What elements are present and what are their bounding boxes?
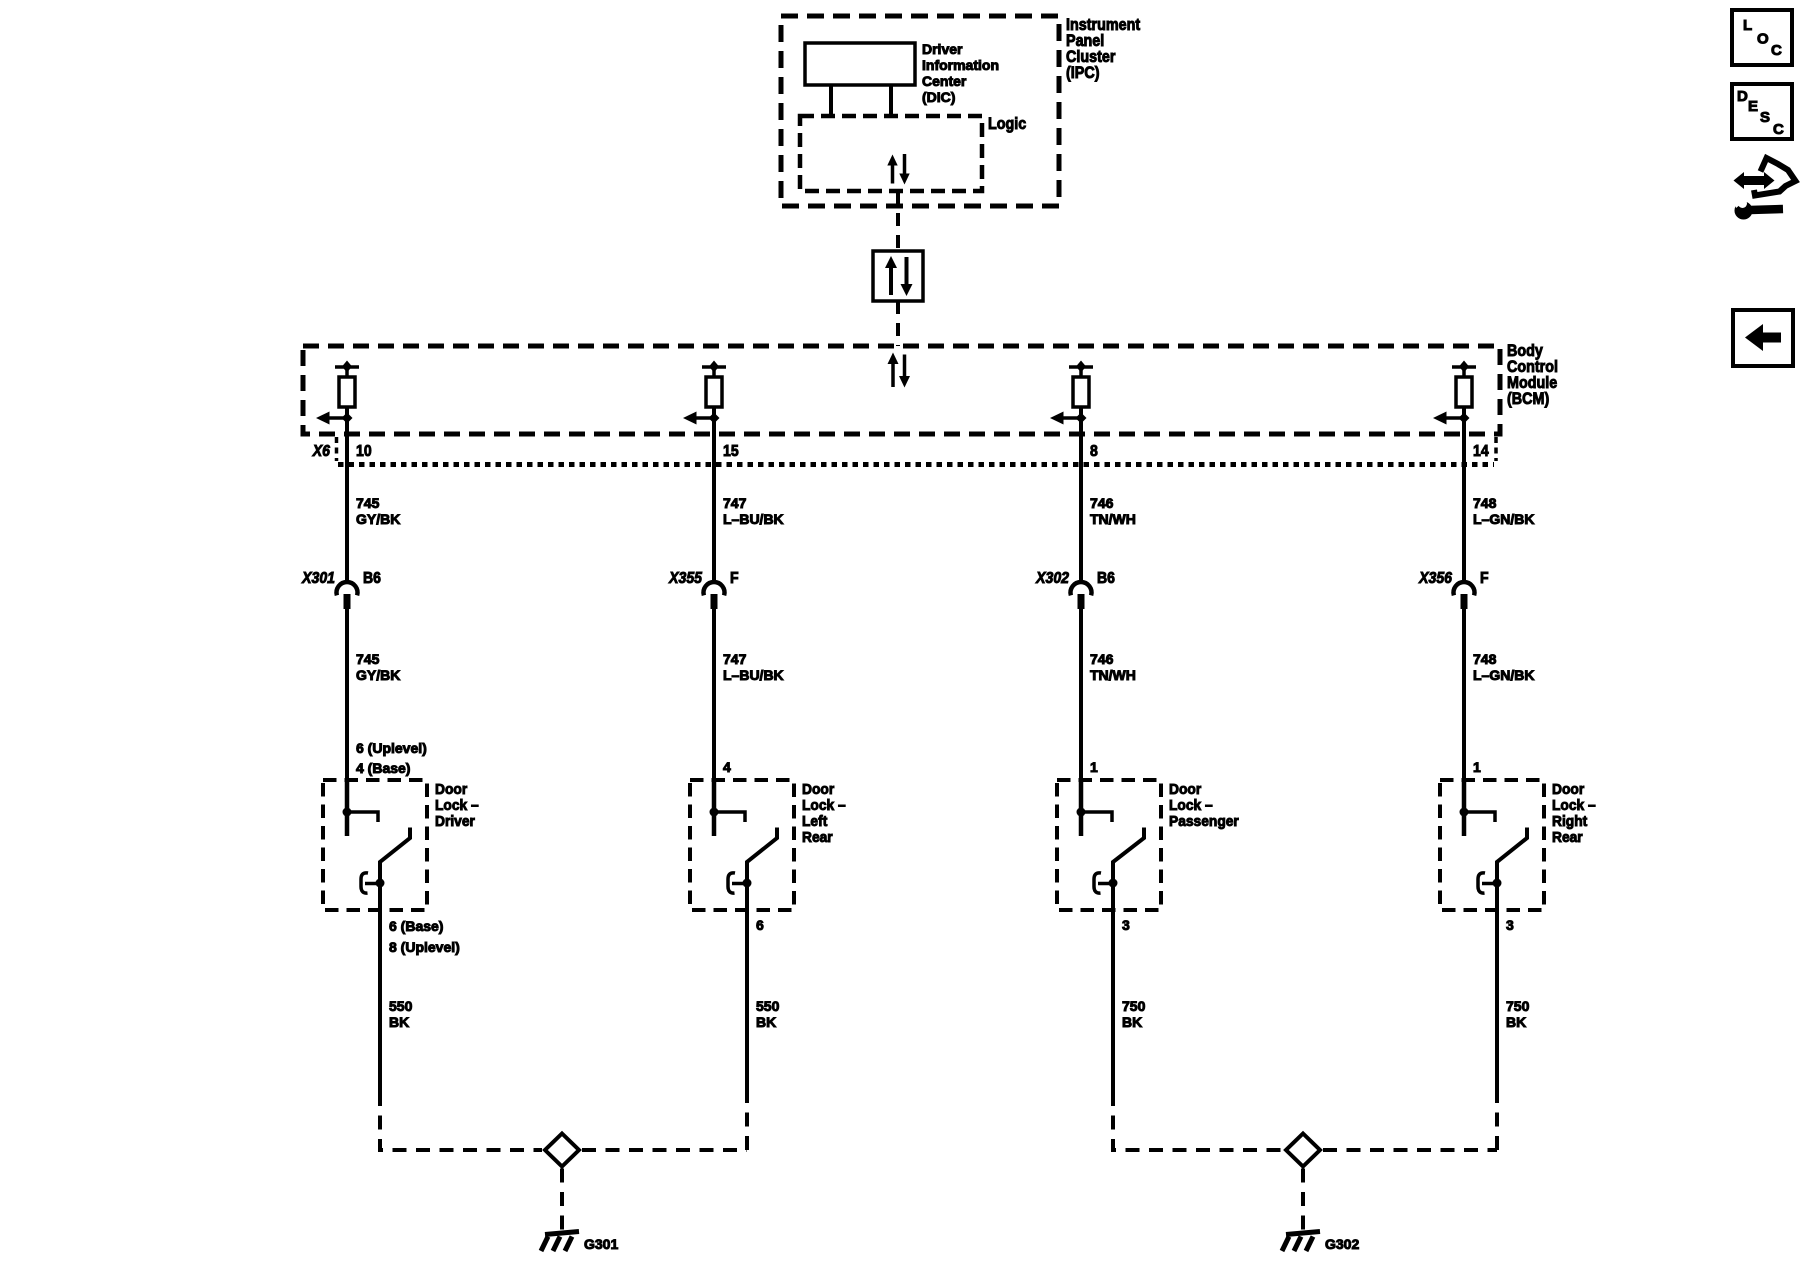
label switch pin 4 <box>723 759 731 775</box>
resistor R4 (BCM internal driver) <box>1456 377 1472 407</box>
junction dot (output 3) <box>1076 413 1087 424</box>
module box: Instrument Panel Cluster (IPC) <box>781 16 1059 206</box>
svg-text:L–GN/BK: L–GN/BK <box>1473 511 1534 527</box>
junction dot (switch output) <box>376 879 385 888</box>
wire 745 GY/BK (BCM pin 10 to connector X301) <box>345 436 349 584</box>
svg-text:745: 745 <box>356 495 380 511</box>
label connector pin F <box>1480 569 1489 587</box>
svg-text:GY/BK: GY/BK <box>356 511 400 527</box>
svg-text:C: C <box>1771 42 1782 59</box>
resistor R1 (BCM internal driver) <box>339 377 355 407</box>
wire resistor R4 to BCM pin 14 <box>1462 407 1466 436</box>
ground G301 <box>541 1232 579 1252</box>
signal sense arrow (output 1) <box>316 412 347 425</box>
resistor R2 (BCM internal driver) <box>706 377 722 407</box>
svg-text:Center: Center <box>922 73 967 89</box>
momentary contact hook <box>1094 873 1113 893</box>
signal sense arrow (output 3) <box>1050 412 1081 425</box>
label Door Lock - Left Rear <box>802 782 846 847</box>
fixed contact (unlock) <box>1081 812 1112 822</box>
wire 746 TN/WH (connector X302 to door lock switch) <box>1079 608 1083 781</box>
wire 747 L–BU/BK (BCM pin 15 to connector X355) <box>712 436 716 584</box>
svg-text:BK: BK <box>1122 1014 1142 1030</box>
switch input wire <box>1462 781 1467 836</box>
wire DIC to Logic (right lead) <box>889 85 893 116</box>
wire (dashed) driver switch to splice <box>380 1092 542 1150</box>
svg-text:3: 3 <box>1122 917 1130 933</box>
label BCM pin 15 <box>723 442 739 460</box>
junction dot (output 1) <box>342 413 353 424</box>
svg-text:G301: G301 <box>584 1236 618 1252</box>
switch blade (movable contact) <box>1497 828 1527 911</box>
junction dot (switch input) <box>710 808 719 817</box>
svg-text:Right: Right <box>1552 814 1587 831</box>
svg-text:Driver: Driver <box>922 41 963 57</box>
wire resistor R2 to BCM pin 15 <box>712 407 716 436</box>
label connector X302 <box>1035 569 1069 587</box>
svg-text:D: D <box>1737 88 1748 105</box>
svg-text:Lock –: Lock – <box>802 798 846 815</box>
fixed contact (unlock) <box>1464 812 1495 822</box>
switch blade (movable contact) <box>747 828 777 911</box>
svg-text:1: 1 <box>1473 759 1481 775</box>
junction dot (switch input) <box>343 808 352 817</box>
svg-text:Passenger: Passenger <box>1169 814 1239 831</box>
label connector pin B6 <box>1097 569 1115 587</box>
inline connector X355 pin F (female/male symbol) <box>704 582 725 609</box>
svg-text:746: 746 <box>1090 651 1114 667</box>
svg-text:Logic: Logic <box>988 115 1027 133</box>
label connector pin F <box>730 569 739 587</box>
label switch pin 3 <box>1506 917 1514 933</box>
icon button LOC <box>1732 10 1792 65</box>
svg-text:O: O <box>1757 31 1769 48</box>
wire: serial data IPC to link symbol (dashed) <box>896 191 900 251</box>
svg-text:(DIC): (DIC) <box>922 89 955 105</box>
svg-text:C: C <box>1773 121 1784 138</box>
svg-text:TN/WH: TN/WH <box>1090 667 1136 683</box>
label Door Lock - Passenger <box>1169 782 1239 831</box>
svg-text:8 (Uplevel): 8 (Uplevel) <box>389 939 460 955</box>
switch box: Door Lock - Right Rear <box>1440 780 1544 910</box>
svg-text:L: L <box>1743 17 1752 34</box>
svg-text:746: 746 <box>1090 495 1114 511</box>
label switch pin 1 <box>1090 759 1098 775</box>
BCM driver voltage rail (output 1) <box>335 361 359 378</box>
svg-text:GY/BK: GY/BK <box>356 667 400 683</box>
svg-text:Information: Information <box>922 57 999 73</box>
icon back arrow button <box>1733 310 1793 366</box>
logic box (IPC internal) <box>800 116 982 191</box>
junction dot (output 2) <box>709 413 720 424</box>
svg-text:Left: Left <box>802 814 827 831</box>
svg-text:Door: Door <box>1169 782 1202 799</box>
svg-text:15: 15 <box>723 442 739 460</box>
wire 550 BK (switch to splice) <box>378 910 382 1092</box>
svg-text:6 (Base): 6 (Base) <box>389 918 443 934</box>
BCM harness connector face (dotted line) <box>338 462 1494 467</box>
svg-text:X355: X355 <box>668 569 702 587</box>
svg-text:Rear: Rear <box>802 830 833 847</box>
wire (dashed) splice to G302 <box>1301 1169 1305 1234</box>
label connector pin B6 <box>363 569 381 587</box>
svg-text:747: 747 <box>723 651 747 667</box>
label DIC <box>922 41 999 105</box>
junction dot (output 4) <box>1459 413 1470 424</box>
label connector X6 <box>312 442 331 460</box>
svg-text:6 (Uplevel): 6 (Uplevel) <box>356 740 427 756</box>
junction dot (switch input) <box>1460 808 1469 817</box>
label wire 748 L–GN/BK (upper) <box>1473 495 1534 527</box>
label switch pin 3 <box>1122 917 1130 933</box>
switch blade (movable contact) <box>380 828 410 911</box>
svg-text:550: 550 <box>389 998 413 1014</box>
label wire 746 TN/WH (lower) <box>1090 651 1136 683</box>
label wire 750 BK <box>1122 998 1146 1030</box>
svg-text:8: 8 <box>1090 442 1098 460</box>
junction dot (switch output) <box>1109 879 1118 888</box>
svg-text:Driver: Driver <box>435 814 475 831</box>
svg-text:550: 550 <box>756 998 780 1014</box>
wire resistor R3 to BCM pin 8 <box>1079 407 1083 436</box>
BCM driver voltage rail (output 4) <box>1452 361 1476 378</box>
label wire 550 BK <box>756 998 780 1030</box>
wire (dashed) splice to left rear switch <box>582 1092 747 1150</box>
wire DIC to Logic (left lead) <box>829 85 833 116</box>
wire 745 GY/BK (connector X301 to door lock switch) <box>345 608 349 781</box>
label switch pin 6 (Uplevel) / 4 (Base) <box>356 740 427 776</box>
connector boundary tick (right, pin 14) <box>1494 437 1498 461</box>
wire 550 BK (switch to splice) <box>745 910 749 1092</box>
label wire 746 TN/WH (upper) <box>1090 495 1136 527</box>
svg-text:Lock –: Lock – <box>1169 798 1213 815</box>
svg-text:F: F <box>1480 569 1489 587</box>
inline connector X356 pin F (female/male symbol) <box>1453 582 1474 609</box>
svg-text:747: 747 <box>723 495 747 511</box>
label wire 745 GY/BK (lower) <box>356 651 400 683</box>
label Door Lock - Driver <box>435 782 479 831</box>
resistor R3 (BCM internal driver) <box>1073 377 1089 407</box>
fixed contact (unlock) <box>714 812 745 822</box>
svg-text:1: 1 <box>1090 759 1098 775</box>
svg-text:14: 14 <box>1473 442 1489 460</box>
BCM driver voltage rail (output 3) <box>1069 361 1093 378</box>
svg-text:E: E <box>1748 98 1758 115</box>
svg-text:750: 750 <box>1506 998 1530 1014</box>
svg-text:L–BU/BK: L–BU/BK <box>723 511 784 527</box>
svg-text:4 (Base): 4 (Base) <box>356 760 410 776</box>
switch box: Door Lock - Driver <box>323 780 427 910</box>
svg-text:Rear: Rear <box>1552 830 1583 847</box>
svg-text:X6: X6 <box>312 442 331 460</box>
label wire 747 L–BU/BK (upper) <box>723 495 784 527</box>
svg-text:L–GN/BK: L–GN/BK <box>1473 667 1534 683</box>
svg-text:748: 748 <box>1473 495 1497 511</box>
fixed contact (unlock) <box>347 812 378 822</box>
serial data arrows (IPC logic) <box>887 154 909 185</box>
wire 750 BK (switch to splice) <box>1111 910 1115 1092</box>
inline connector X301 pin B6 (female/male symbol) <box>337 582 358 609</box>
label switch pin 1 <box>1473 759 1481 775</box>
wire 747 L–BU/BK (connector X355 to door lock switch) <box>712 608 716 781</box>
switch input wire <box>712 781 717 836</box>
wire (dashed) splice to G301 <box>560 1169 564 1234</box>
label BCM <box>1507 342 1558 408</box>
svg-text:4: 4 <box>723 759 731 775</box>
label switch pin 6 <box>756 917 764 933</box>
wire 748 L–GN/BK (BCM pin 14 to connector X356) <box>1462 436 1466 584</box>
wire (dashed) passenger switch to splice <box>1113 1092 1283 1150</box>
label BCM pin 10 <box>356 442 372 460</box>
svg-text:BK: BK <box>756 1014 776 1030</box>
switch box: Door Lock - Left Rear <box>690 780 794 910</box>
svg-text:X302: X302 <box>1035 569 1069 587</box>
svg-text:Door: Door <box>802 782 835 799</box>
momentary contact hook <box>728 873 747 893</box>
svg-text:Lock –: Lock – <box>435 798 479 815</box>
svg-text:(IPC): (IPC) <box>1066 64 1099 82</box>
label ground G301 <box>584 1236 618 1252</box>
signal sense arrow (output 2) <box>683 412 714 425</box>
signal sense arrow (output 4) <box>1433 412 1464 425</box>
svg-text:Door: Door <box>1552 782 1585 799</box>
switch input wire <box>1079 781 1084 836</box>
momentary contact hook <box>361 873 380 893</box>
svg-text:3: 3 <box>1506 917 1514 933</box>
label connector X301 <box>301 569 335 587</box>
svg-text:6: 6 <box>756 917 764 933</box>
junction dot (switch output) <box>1493 879 1502 888</box>
svg-text:X356: X356 <box>1418 569 1452 587</box>
label connector X355 <box>668 569 702 587</box>
label ground G302 <box>1325 1236 1359 1252</box>
wire resistor R1 to BCM pin 10 <box>345 407 349 436</box>
label wire 750 BK <box>1506 998 1530 1030</box>
svg-text:F: F <box>730 569 739 587</box>
display box: Driver Information Center (DIC) <box>805 43 915 85</box>
svg-text:BK: BK <box>389 1014 409 1030</box>
svg-text:G302: G302 <box>1325 1236 1359 1252</box>
switch blade (movable contact) <box>1113 828 1144 911</box>
connector X6 boundary tick <box>335 437 339 461</box>
svg-text:10: 10 <box>356 442 372 460</box>
svg-text:B6: B6 <box>1097 569 1115 587</box>
switch input wire <box>345 781 350 836</box>
wire (dashed) splice to right rear switch <box>1323 1092 1497 1150</box>
wire 746 TN/WH (BCM pin 8 to connector X302) <box>1079 436 1083 584</box>
wire 748 L–GN/BK (connector X356 to door lock switch) <box>1462 608 1466 781</box>
label IPC <box>1066 16 1140 82</box>
svg-text:745: 745 <box>356 651 380 667</box>
wire 750 BK (switch to splice) <box>1495 910 1499 1092</box>
label wire 550 BK <box>389 998 413 1030</box>
svg-text:Door: Door <box>435 782 468 799</box>
label BCM pin 8 <box>1090 442 1098 460</box>
svg-text:TN/WH: TN/WH <box>1090 511 1136 527</box>
svg-text:(BCM): (BCM) <box>1507 390 1549 408</box>
serial data arrows (BCM) <box>888 353 911 388</box>
switch box: Door Lock - Passenger <box>1057 780 1161 910</box>
wire: serial data link symbol to BCM (dashed) <box>896 301 900 346</box>
label switch pin 6 (Base) / 8 (Uplevel) <box>389 918 460 955</box>
splice (right pair) <box>1286 1134 1320 1167</box>
inline connector X302 pin B6 (female/male symbol) <box>1071 582 1092 609</box>
module box: Body Control Module (BCM) <box>303 346 1500 434</box>
icon button DESC <box>1732 84 1792 139</box>
junction dot (switch input) <box>1077 808 1086 817</box>
svg-text:Lock –: Lock – <box>1552 798 1596 815</box>
junction dot (switch output) <box>743 879 752 888</box>
splice (left pair) <box>545 1134 579 1167</box>
svg-text:B6: B6 <box>363 569 381 587</box>
label wire 745 GY/BK (upper) <box>356 495 400 527</box>
momentary contact hook <box>1478 873 1497 893</box>
BCM driver voltage rail (output 2) <box>702 361 726 378</box>
svg-text:BK: BK <box>1506 1014 1526 1030</box>
svg-text:S: S <box>1760 109 1770 126</box>
label wire 747 L–BU/BK (lower) <box>723 651 784 683</box>
icon schematic navigation (arrows + wrench) <box>1733 158 1796 220</box>
svg-text:X301: X301 <box>301 569 335 587</box>
svg-text:748: 748 <box>1473 651 1497 667</box>
label connector X356 <box>1418 569 1452 587</box>
svg-text:L–BU/BK: L–BU/BK <box>723 667 784 683</box>
label Door Lock - Right Rear <box>1552 782 1596 847</box>
serial data link symbol U1 <box>873 251 923 301</box>
label wire 748 L–GN/BK (lower) <box>1473 651 1534 683</box>
label BCM pin 14 <box>1473 442 1489 460</box>
ground G302 <box>1282 1232 1320 1252</box>
svg-text:750: 750 <box>1122 998 1146 1014</box>
label Logic <box>988 115 1027 133</box>
